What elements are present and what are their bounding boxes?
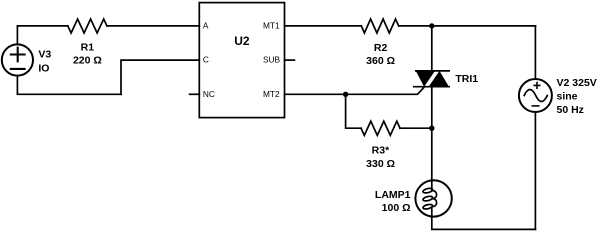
- svg-text:NC: NC: [203, 89, 215, 99]
- lamp filament right bumps: [433, 191, 437, 207]
- V2 plus sign: [534, 83, 540, 89]
- svg-text:C: C: [203, 54, 209, 64]
- triac TRI1 bottom bar: [414, 86, 449, 88]
- svg-text:R2: R2: [374, 42, 388, 54]
- svg-text:sine: sine: [557, 90, 578, 102]
- svg-text:LAMP1: LAMP1: [375, 189, 411, 201]
- wire R1 to pin A: [107, 25, 199, 27]
- triac TRI1 down triangle: [416, 71, 435, 87]
- wire riser to pin C: [121, 60, 199, 94]
- V2 sine wave: [524, 90, 547, 102]
- triac TRI1 up triangle: [429, 71, 449, 87]
- wire main vertical triac to lamp: [431, 87, 433, 181]
- V3 minus sign: [11, 68, 25, 70]
- svg-text:220 Ω: 220 Ω: [73, 55, 102, 67]
- voltage source V2: [519, 79, 552, 112]
- lamp filament loop 2: [423, 195, 433, 201]
- junction dot gate wire: [343, 92, 348, 97]
- svg-text:330 Ω: 330 Ω: [366, 158, 395, 170]
- svg-text:A: A: [203, 21, 209, 31]
- V3 plus sign: [11, 48, 25, 62]
- svg-text:SUB: SUB: [263, 54, 281, 64]
- junction dot R3 right: [429, 126, 434, 131]
- svg-text:MT2: MT2: [263, 89, 280, 99]
- wire R3 to main vertical: [400, 127, 432, 129]
- lamp LAMP1 circle: [415, 180, 451, 216]
- lamp filament loop 3: [423, 204, 433, 210]
- svg-text:100 Ω: 100 Ω: [382, 202, 411, 214]
- triac TRI1 top bar: [416, 70, 449, 72]
- svg-text:U2: U2: [234, 34, 250, 48]
- lamp filament loop 1: [423, 187, 433, 193]
- svg-text:V2 325V: V2 325V: [557, 77, 597, 89]
- wire V3 bottom to riser: [17, 76, 121, 95]
- resistor R2: [361, 19, 398, 33]
- svg-text:360 Ω: 360 Ω: [366, 55, 395, 67]
- V2 minus sign: [532, 105, 538, 107]
- wire main vertical above triac: [431, 26, 433, 71]
- svg-text:R1: R1: [81, 42, 95, 54]
- wire junction to R3: [346, 94, 361, 128]
- wire lamp bottom to rail: [432, 207, 536, 229]
- svg-text:V3: V3: [38, 49, 51, 61]
- svg-text:MT1: MT1: [263, 21, 280, 31]
- wire R2 to top right corner: [399, 25, 536, 27]
- junction dot top rail: [429, 23, 434, 28]
- svg-text:50 Hz: 50 Hz: [557, 104, 584, 116]
- svg-text:R3*: R3*: [372, 145, 390, 157]
- wire top rail down to V2: [534, 26, 536, 79]
- wire lamp top stub: [431, 180, 433, 190]
- NC pin stub: [190, 93, 200, 95]
- resistor R3: [361, 121, 400, 135]
- wire MT2 / gate: [285, 87, 425, 95]
- wire V3 top to R1: [17, 26, 67, 45]
- wire bottom rail up to V2: [534, 112, 536, 229]
- voltage source V3: [2, 44, 33, 75]
- svg-text:TRI1: TRI1: [455, 73, 478, 85]
- resistor R1: [68, 19, 107, 33]
- svg-text:IO: IO: [38, 63, 49, 75]
- IC U2 box: [199, 3, 284, 118]
- SUB pin stub: [285, 59, 295, 61]
- wire MT1 to R2: [285, 25, 362, 27]
